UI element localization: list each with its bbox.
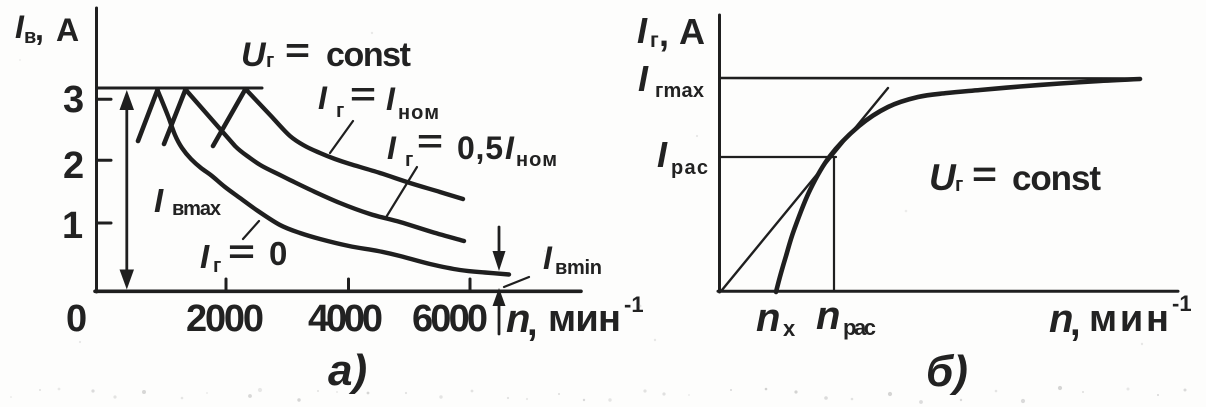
- y tick 1: [97, 222, 112, 225]
- svg-text:,: ,: [659, 13, 669, 54]
- double arrow shaft: [125, 103, 128, 280]
- rising line R2: [164, 90, 186, 145]
- curve Ig=0: [158, 90, 510, 275]
- rising line R3: [213, 89, 246, 146]
- svg-text:-1: -1: [624, 292, 644, 317]
- svg-text:const: const: [1012, 159, 1101, 198]
- up arrow shaft: [498, 305, 501, 334]
- tangent line: [722, 88, 888, 290]
- Iras line: [720, 156, 836, 158]
- arrowheads of double arrow: [120, 90, 135, 110]
- leader 0.5Inom: [385, 167, 417, 219]
- svg-text:I: I: [657, 134, 668, 175]
- texts left graph: [15, 9, 644, 395]
- curve Ig=Inom: [246, 89, 464, 199]
- leader Ivmin: [504, 277, 529, 287]
- limit line Ivmax: [97, 87, 263, 90]
- svg-text:ном: ном: [398, 102, 439, 124]
- svg-text:n: n: [756, 296, 780, 340]
- up arrow head: [493, 288, 506, 306]
- right x-axis: [718, 290, 1178, 293]
- x tick 6000: [469, 279, 472, 291]
- svg-text:I: I: [386, 81, 396, 117]
- svg-text:0,5: 0,5: [457, 130, 503, 166]
- svg-text:0: 0: [66, 298, 87, 340]
- y tick 3: [97, 98, 112, 101]
- svg-text:=: =: [417, 123, 443, 159]
- svg-text:мин: мин: [548, 298, 621, 340]
- rising line R1: [138, 90, 158, 141]
- svg-text:I: I: [543, 240, 553, 276]
- svg-text:=: =: [228, 233, 255, 270]
- curve Ig=0.5Inom: [186, 90, 465, 242]
- svg-text:рас: рас: [671, 157, 708, 179]
- svg-text:U: U: [241, 36, 267, 74]
- svg-text:-1: -1: [1172, 291, 1192, 316]
- svg-text:const: const: [326, 36, 411, 74]
- svg-text:I: I: [318, 80, 328, 116]
- right curve: [776, 79, 1140, 292]
- svg-text:I: I: [637, 10, 648, 51]
- y tick 2: [97, 159, 112, 162]
- svg-text:4000: 4000: [308, 298, 383, 340]
- svg-text:вmax: вmax: [172, 198, 221, 220]
- svg-text:I: I: [638, 58, 649, 99]
- svg-text:U: U: [929, 157, 957, 198]
- svg-text:=: =: [350, 76, 376, 112]
- svg-text:г: г: [955, 174, 963, 196]
- svg-text:мин: мин: [1089, 298, 1169, 340]
- Igmax line: [721, 77, 1140, 80]
- svg-text:А: А: [56, 12, 79, 48]
- svg-text:х: х: [783, 316, 796, 341]
- svg-text:0: 0: [269, 235, 287, 272]
- svg-text:,: ,: [35, 11, 44, 47]
- svg-text:вmin: вmin: [555, 257, 602, 279]
- leader Ig=0: [243, 221, 259, 239]
- svg-text:2000: 2000: [186, 298, 264, 340]
- svg-text:2: 2: [63, 145, 84, 187]
- svg-text:6000: 6000: [412, 298, 488, 340]
- svg-text:3: 3: [63, 79, 84, 121]
- svg-text:I: I: [387, 130, 397, 166]
- svg-text:ном: ном: [516, 149, 557, 171]
- svg-text:рас: рас: [843, 315, 876, 340]
- left y-axis: [95, 8, 98, 292]
- svg-text:а): а): [328, 346, 367, 395]
- x tick 2000: [225, 279, 228, 291]
- down arrow shaft: [498, 227, 501, 254]
- svg-text:n: n: [816, 294, 840, 338]
- svg-text:=: =: [285, 32, 310, 70]
- svg-text:г: г: [266, 50, 274, 72]
- svg-text:г: г: [336, 100, 344, 122]
- down arrow head: [493, 251, 506, 271]
- svg-text:г: г: [213, 255, 221, 277]
- svg-text:1: 1: [62, 205, 83, 247]
- svg-text:=: =: [972, 155, 997, 194]
- svg-text:б): б): [926, 347, 968, 396]
- svg-text:,: ,: [527, 302, 538, 344]
- nras vertical: [833, 157, 835, 291]
- svg-text:г: г: [650, 29, 659, 52]
- x tick 4000: [347, 279, 350, 291]
- svg-text:,: ,: [1070, 302, 1081, 344]
- svg-text:I: I: [505, 130, 515, 166]
- leader Inom: [330, 121, 353, 153]
- texts right graph: [637, 10, 1192, 396]
- left x-axis: [95, 289, 581, 293]
- svg-text:I: I: [200, 238, 210, 275]
- svg-text:г: г: [405, 149, 413, 171]
- right y-axis: [718, 15, 721, 292]
- svg-text:I: I: [154, 182, 164, 219]
- svg-text:А: А: [679, 11, 705, 52]
- svg-text:гmax: гmax: [655, 80, 704, 102]
